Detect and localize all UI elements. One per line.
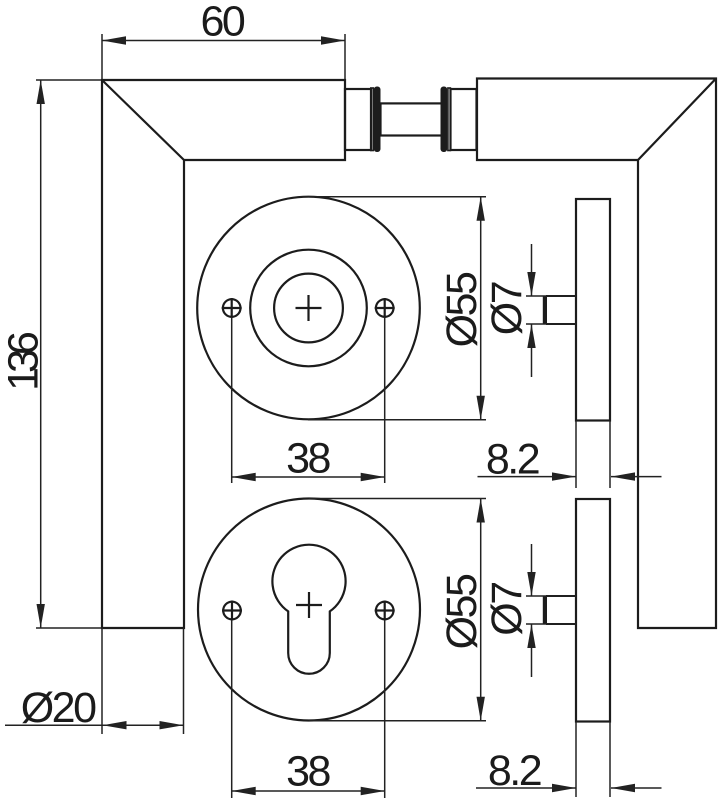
svg-text:136: 136 bbox=[0, 332, 47, 391]
svg-text:Ø7: Ø7 bbox=[483, 282, 531, 335]
svg-text:Ø20: Ø20 bbox=[21, 684, 96, 732]
svg-text:8.2: 8.2 bbox=[488, 747, 541, 795]
svg-text:8.2: 8.2 bbox=[486, 435, 539, 483]
svg-text:Ø55: Ø55 bbox=[438, 272, 486, 347]
svg-text:60: 60 bbox=[200, 0, 244, 46]
svg-text:38: 38 bbox=[286, 434, 330, 482]
svg-text:Ø7: Ø7 bbox=[483, 583, 531, 636]
svg-text:Ø55: Ø55 bbox=[438, 574, 486, 649]
svg-text:38: 38 bbox=[286, 747, 330, 795]
